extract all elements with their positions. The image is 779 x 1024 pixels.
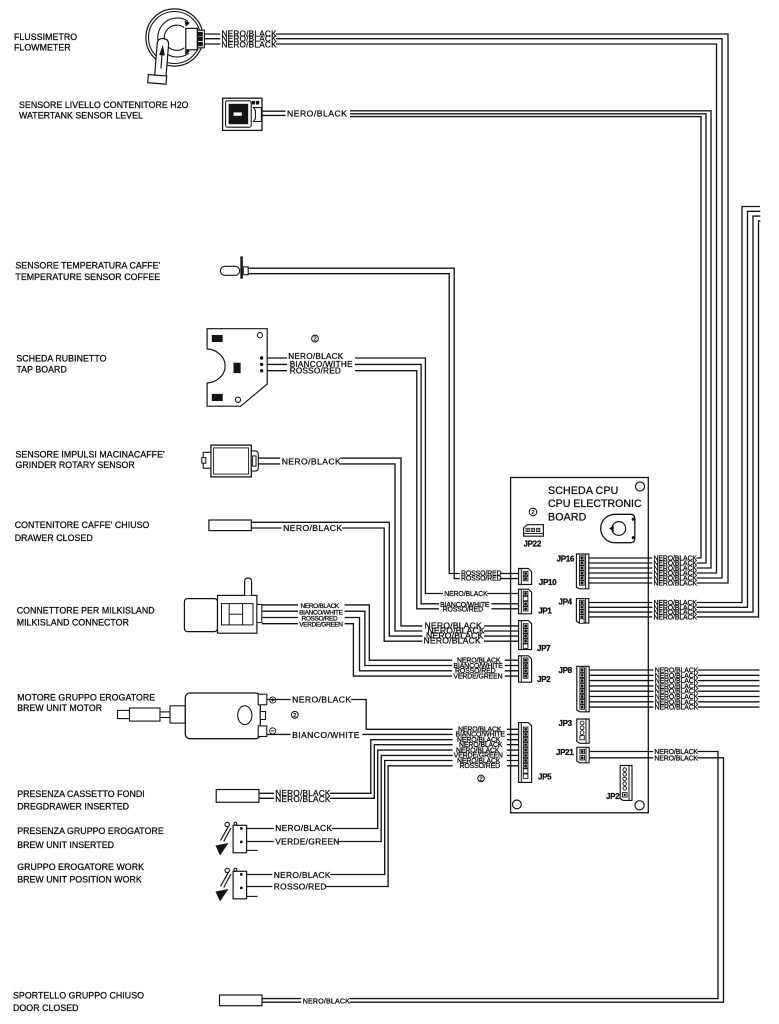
wire tapboard NERO/BLACK to JP1 pin1 [262,358,523,594]
labels at JP2 [452,657,505,680]
wire tempsensor-1 to JP10 pin2 [248,268,523,578]
svg-text:DOOR CLOSED: DOOR CLOSED [13,1003,79,1013]
buzzer footprint on board [601,514,635,542]
wire watertank stub lower [262,114,288,116]
wire milkisland NERO/BLACK to JP2 pin1 [262,605,523,660]
wire dregdrawer-2 to JP5 pin4 [259,745,523,799]
board title SCHEDA CPU / CPU ELECTRONIC BOARD [548,485,642,524]
svg-text:FLOWMETER: FLOWMETER [14,43,71,53]
label ROSSO/RED brew work [272,882,325,891]
flowmeter tube with flow arrow [148,38,170,85]
svg-text:DRAWER CLOSED: DRAWER CLOSED [15,533,93,543]
wire flowmeter-3 to JP16 pin4 [205,44,717,573]
wire JP4 pin4 stub [589,221,761,617]
wire flowmeter-1 to JP16 pin6 [205,34,729,583]
wire tapboard ROSSO/RED to JP1 pin4 [262,371,523,609]
labels NERO/BLACK x2 dregdrawer wires [274,789,330,804]
CPU board outline [511,478,649,813]
mounting hole bottom left [513,800,522,809]
svg-text:BOARD: BOARD [548,511,587,523]
svg-text:SCHEDA RUBINETTO: SCHEDA RUBINETTO [16,354,106,364]
wire JP8 pin5 [589,690,760,692]
text label dregdrawer [17,789,145,811]
encircled 2 mark near tap board [312,335,319,343]
svg-text:BREW UNIT INSERTED: BREW UNIT INSERTED [17,840,114,850]
svg-text:SENSORE IMPULSI MACINACAFFE': SENSORE IMPULSI MACINACAFFE' [16,450,165,460]
mounting hole bottom right [635,801,644,810]
wire drawer-2 to JP7 pin4 [251,528,523,641]
label NERO/BLACK grinder wire [280,457,340,466]
wire grinder-2 to JP7 pin2 [258,464,523,631]
wire brew-inserted VERDE/GREEN to JP5 pin6 [247,755,523,841]
wire brew-work NERO/BLACK to JP5 pin7 [247,761,523,875]
svg-text:JP16: JP16 [557,554,575,563]
wire watertank-1 to JP16 pin3 [350,111,711,568]
connector JP5 [519,723,532,783]
wire milkisland ROSSO/RED to JP2 pin3 [262,618,523,671]
wire JP8 pin1 [589,669,760,671]
encircled 2 mark near motor [291,711,298,719]
label VERDE/GREEN brew inserted [274,837,338,846]
wire brew-work ROSSO/RED to JP5 pin8 [247,766,523,887]
encircled 2 mark below JP5 labels [478,775,485,782]
svg-text:JP21: JP21 [556,748,574,757]
svg-text:NERO/BLACK: NERO/BLACK [275,823,332,833]
labels at JP1 [443,590,487,597]
wire brew-inserted NERO/BLACK to JP5 pin5 [247,750,523,828]
connector JP16 [576,554,588,589]
svg-text:JP4: JP4 [559,598,573,607]
svg-text:JP7: JP7 [537,644,551,653]
labels tap board wires [287,352,355,375]
motor minus terminal mark [270,728,276,734]
svg-text:JP3: JP3 [559,719,573,728]
wire JP8 pin4 [589,685,760,687]
text label brew unit inserted [17,826,164,850]
svg-text:CPU ELECTRONIC: CPU ELECTRONIC [548,498,642,510]
wire JP21 pin1 to door switch [262,752,718,999]
wire watertank-3 to JP16 pin1 [350,117,701,558]
connector JP20 [620,766,632,801]
svg-text:MOTORE GRUPPO EROGATORE: MOTORE GRUPPO EROGATORE [17,692,155,702]
svg-text:ROSSO/RED: ROSSO/RED [443,607,484,614]
encircled 2 mark on board [529,508,537,516]
svg-text:CONNETTORE PER MILKISLAND: CONNETTORE PER MILKISLAND [17,606,155,616]
svg-text:2: 2 [293,713,296,719]
wire flowmeter-2 to JP16 pin5 [205,39,723,578]
wire JP8 pin8 [589,706,760,708]
svg-text:VERDE/GREEN: VERDE/GREEN [453,673,502,680]
label NERO/BLACK door switch [301,997,350,1005]
svg-text:NERO/BLACK: NERO/BLACK [287,109,347,119]
flowmeter connector 3-pin [186,28,205,49]
labels NERO/BLACK x2 at JP21 [653,748,697,762]
wire motor NERO/BLACK to JP5 pin1 [267,700,523,730]
label NERO/BLACK drawer wire [282,524,342,533]
svg-text:PRESENZA CASSETTO FONDI: PRESENZA CASSETTO FONDI [17,789,145,799]
mounting hole top right [636,482,645,491]
svg-text:ROSSO/RED: ROSSO/RED [461,576,502,583]
svg-text:DREGDRAWER INSERTED: DREGDRAWER INSERTED [17,802,129,812]
svg-text:BREW UNIT MOTOR: BREW UNIT MOTOR [17,703,102,713]
svg-text:ROSSO/RED: ROSSO/RED [274,881,327,891]
connector JP4 [576,599,588,624]
svg-text:TAP BOARD: TAP BOARD [16,364,66,374]
svg-text:SENSORE TEMPERATURA CAFFE': SENSORE TEMPERATURA CAFFE' [15,261,160,271]
wire grinder-1 to JP7 pin1 [258,458,523,626]
svg-text:JP5: JP5 [538,772,552,781]
brew unit inserted microswitch [216,822,258,855]
connector JP2 [519,656,532,682]
text label drawer closed [15,520,150,543]
wire JP8 pin6 [589,696,760,698]
svg-text:ROSSO/RED: ROSSO/RED [290,367,341,376]
labels NERO/BLACK x4 at JP4 [652,599,696,621]
text label tap board [16,354,106,375]
svg-text:NERO/BLACK: NERO/BLACK [274,870,331,880]
text label flowmeter [14,32,77,53]
svg-text:NERO/BLACK: NERO/BLACK [275,795,331,804]
wire drawer-1 to JP7 pin3 [251,522,523,636]
label NERO/BLACK brew inserted [274,824,332,833]
svg-text:NERO/BLACK: NERO/BLACK [222,40,278,49]
temperature sensor probe [220,256,248,278]
svg-text:2: 2 [479,777,482,783]
svg-text:PRESENZA GRUPPO EROGATORE: PRESENZA GRUPPO EROGATORE [17,826,164,836]
connector JP7 [519,621,532,650]
labels x8 at JP5 [453,726,507,770]
svg-text:BREW UNIT POSITION WORK: BREW UNIT POSITION WORK [17,874,142,884]
labels NERO/BLACK x6 at JP16 [652,555,696,587]
svg-text:VERDE/GREEN: VERDE/GREEN [299,622,343,629]
text label grinder sensor [16,450,165,471]
wire watertank-2 to JP16 pin2 [350,114,706,563]
svg-text:BIANCO/WHITE: BIANCO/WHITE [292,730,360,740]
door closed sensor [220,995,263,1006]
labels NERO/BLACK x3 flowmeter wires [220,30,276,49]
connector JP10 [519,569,532,585]
label BIANCO/WHITE motor [291,731,363,740]
svg-text:NERO/BLACK: NERO/BLACK [303,997,350,1006]
labels ROSSO/RED x2 at JP10 [460,570,500,582]
wire tapboard BIANCO/WITHE to JP1 pin3 [262,364,523,603]
labels BIANCO/WHITE ROSSO/RED at JP1 [439,601,492,613]
milkisland connector [184,578,261,633]
text label brew unit work [17,862,144,884]
wire dregdrawer-1 to JP5 pin3 [259,740,523,794]
connector JP8 [577,666,589,712]
svg-text:GRINDER ROTARY SENSOR: GRINDER ROTARY SENSOR [16,460,135,470]
svg-text:2: 2 [531,510,534,516]
wire JP8 pin2 [589,674,760,676]
text label door closed [13,991,144,1013]
wire motor BIANCO/WHITE to JP5 pin2 [267,733,523,735]
svg-text:TEMPERATURE SENSOR COFFEE: TEMPERATURE SENSOR COFFEE [15,272,160,282]
svg-text:WATERTANK SENSOR LEVEL: WATERTANK SENSOR LEVEL [19,111,143,121]
dregdrawer inserted sensor [216,790,259,803]
connector JP21 [577,747,589,763]
wire JP4 pin3 stub [589,216,761,612]
labels milkisland wires [298,603,345,628]
svg-text:GRUPPO EROGATORE WORK: GRUPPO EROGATORE WORK [17,862,144,872]
wire watertank stub upper [262,110,288,112]
label NERO/BLACK watertank wire [286,109,347,118]
svg-text:ROSSO/RED: ROSSO/RED [460,763,501,770]
svg-text:SPORTELLO GRUPPO CHIUSO: SPORTELLO GRUPPO CHIUSO [13,991,144,1001]
label NERO/BLACK brew work [272,871,330,880]
wire milkisland BIANCO/WHITE to JP2 pin2 [262,611,523,665]
svg-text:JP8: JP8 [559,666,573,675]
brew unit work microswitch [216,868,258,901]
svg-text:2: 2 [313,337,316,343]
svg-text:FLUSSIMETRO: FLUSSIMETRO [14,32,77,42]
drawer closed sensor [209,520,251,531]
svg-text:MILKISLAND CONNECTOR: MILKISLAND CONNECTOR [17,618,129,628]
svg-text:CONTENITORE CAFFE' CHIUSO: CONTENITORE CAFFE' CHIUSO [15,520,150,530]
connector JP3 bottom square pin [580,736,584,740]
flowmeter body [146,9,203,66]
watertank level sensor [223,98,262,130]
brew unit motor [118,693,267,739]
svg-text:JP10: JP10 [539,578,557,587]
svg-text:VERDE/GREEN: VERDE/GREEN [275,836,339,846]
grinder rotary sensor [202,445,258,477]
svg-text:NERO/BLACK: NERO/BLACK [654,580,698,587]
svg-text:JP2: JP2 [537,675,551,684]
wire JP4 pin1 stub [589,207,760,603]
wire JP8 pin3 [589,680,760,682]
labels NERO/BLACK x4 at JP7 [422,621,484,645]
wire tempsensor-2 to JP10 pin1 [248,274,523,574]
svg-text:SCHEDA CPU: SCHEDA CPU [548,485,618,497]
text label milkisland connector [17,606,155,628]
svg-text:NERO/BLACK: NERO/BLACK [292,695,351,705]
text label brew unit motor [17,692,155,713]
svg-text:NERO/BLACK: NERO/BLACK [654,755,698,762]
svg-text:NERO/BLACK: NERO/BLACK [444,591,488,598]
svg-text:NERO/BLACK: NERO/BLACK [424,636,481,646]
connector JP3 [577,719,589,743]
label NERO/BLACK motor [291,695,351,704]
wire JP21 pin2 to door switch [262,758,724,1002]
labels NERO/BLACK x8 at JP8 [654,667,698,711]
connector JP1 [519,589,532,614]
svg-text:NERO/BLACK: NERO/BLACK [283,523,342,533]
svg-text:JP22: JP22 [524,539,542,548]
wire milkisland VERDE/GREEN to JP2 pin4 [262,624,523,676]
svg-text:JP1: JP1 [538,607,552,616]
svg-text:NERO/BLACK: NERO/BLACK [654,614,698,621]
motor plus terminal mark [270,697,276,703]
wire JP4 pin2 stub [589,211,761,607]
svg-text:NERO/BLACK: NERO/BLACK [282,457,341,467]
text label temperature sensor [15,261,160,282]
svg-text:SENSORE LIVELLO CONTENITORE H2: SENSORE LIVELLO CONTENITORE H2O [19,100,189,110]
svg-text:NERO/BLACK: NERO/BLACK [655,705,699,712]
connector JP22 [524,525,544,537]
wire JP8 pin7 [589,701,760,703]
tap board PCB [207,329,267,407]
text label watertank sensor [19,100,189,121]
